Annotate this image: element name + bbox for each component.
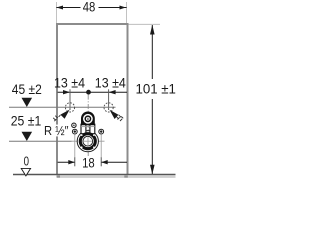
svg-text:R ½″: R ½″: [44, 123, 69, 138]
level line 25: [9, 140, 72, 142]
dashed circle right water connection: [104, 103, 113, 112]
small fixing circle left of drain: [72, 129, 77, 134]
drain outer circle: [77, 131, 98, 152]
drop line from right fixing circle: [100, 134, 102, 158]
svg-text:13 ±4: 13 ±4: [95, 75, 126, 91]
floor shadow: [57, 175, 176, 178]
svg-text:48: 48: [83, 0, 96, 14]
leader arrow to left connection: [53, 110, 69, 122]
footnote circle after R 1/2: [72, 123, 76, 127]
svg-text:13 ±4: 13 ±4: [54, 75, 85, 91]
dimension 101 plusminus 1 line: [150, 25, 155, 175]
dimension 13 plusminus 4 line with center dot: [58, 90, 128, 95]
svg-text:45 ±2: 45 ±2: [12, 82, 42, 97]
extension line left for width dim: [55, 2, 57, 23]
tick line left fixing point: [69, 89, 71, 110]
supply unit stadium body: [81, 112, 95, 126]
svg-text:0: 0: [24, 153, 29, 168]
small fixing circle right of drain: [99, 129, 104, 134]
svg-text:25 ±1: 25 ±1: [11, 114, 42, 129]
dimension 48 line: [56, 6, 126, 10]
module body outline: [57, 24, 128, 175]
label R 1/2 inch: [43, 125, 68, 137]
svg-text:18: 18: [82, 154, 95, 170]
drop line from left fixing circle: [74, 134, 76, 158]
svg-text:101 ±1: 101 ±1: [135, 81, 176, 97]
horizontal centerline of drain: [72, 140, 105, 142]
vertical centerline of fixture: [87, 95, 89, 157]
level line 45: [9, 106, 116, 108]
level marker triangle 45: [22, 98, 33, 107]
dimension 18 line: [58, 157, 128, 166]
leader arrow to right connection: [110, 110, 124, 121]
extension line top-right for height dim: [129, 23, 161, 25]
level marker triangle 25: [22, 132, 33, 141]
extension line right for width dim: [126, 2, 128, 23]
level marker open triangle 0: [21, 168, 30, 176]
dashed circle left water connection: [65, 103, 74, 112]
supply unit fork legs: [81, 124, 95, 134]
drain outlet ring: [80, 134, 95, 149]
floor line: [13, 174, 176, 176]
tick line right fixing point: [108, 89, 110, 110]
